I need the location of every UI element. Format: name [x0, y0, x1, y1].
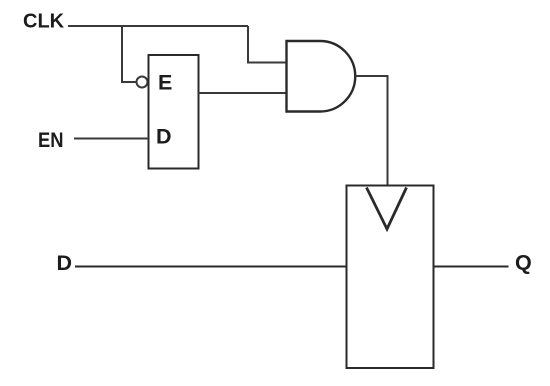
svg-text:CLK: CLK: [23, 11, 65, 33]
svg-text:E: E: [158, 71, 172, 95]
svg-text:Q: Q: [515, 251, 532, 275]
svg-text:EN: EN: [38, 128, 64, 152]
svg-text:D: D: [156, 125, 172, 149]
svg-text:D: D: [57, 251, 73, 275]
